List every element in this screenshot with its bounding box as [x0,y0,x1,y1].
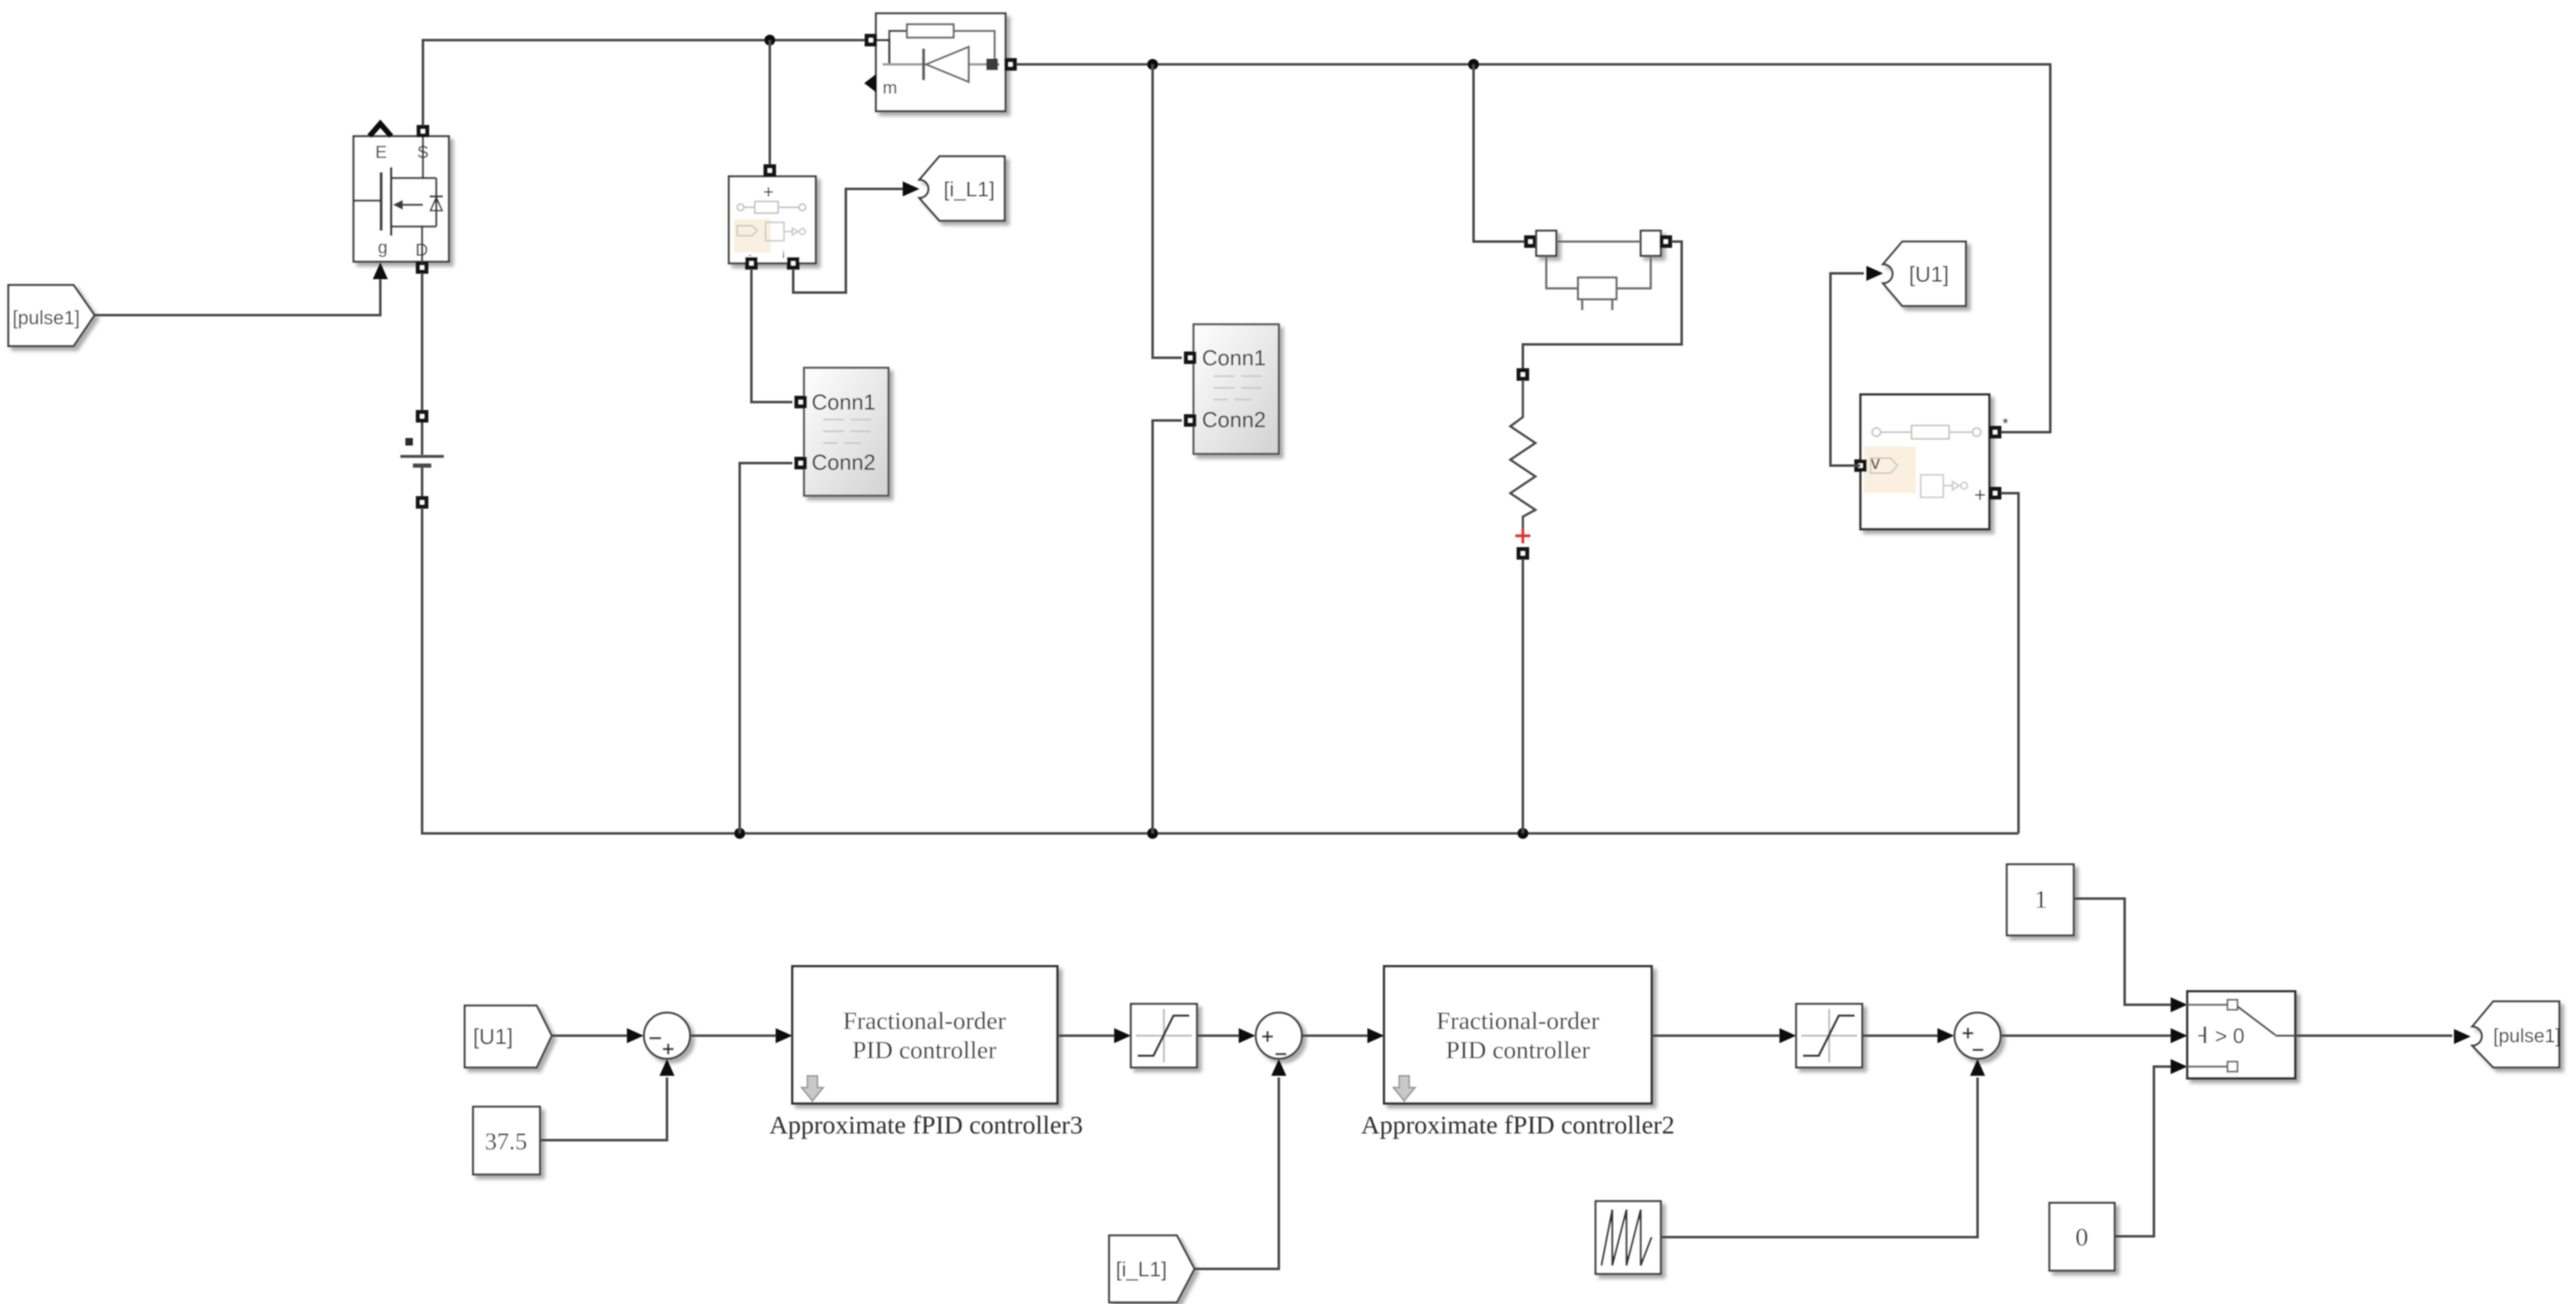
wire Conn2 #2 to rail [1153,420,1182,833]
svg-text:[pulse1]: [pulse1] [2493,1025,2561,1047]
subsystem Approximate fPID controller2 [1384,966,1652,1103]
arrowhead into sum3 [1937,1028,1954,1043]
svg-text:v: v [1871,451,1881,473]
wire const1 to switch [2074,899,2171,1005]
wire [U1] to sum1 [552,1035,627,1037]
wire S port to top bus [423,40,865,125]
wire bus down to RL branch [1474,64,1525,242]
arrowhead into saturation2 [1779,1028,1796,1043]
subsystem block Conn1/Conn2 #2 [1194,324,1279,454]
from tag [i_L1] [1109,1235,1194,1302]
svg-text:1: 1 [2034,884,2048,914]
wire RL element to load resistor [1523,242,1682,369]
wire resistor to rail [1522,559,1525,833]
junction node top-left bus [765,35,776,46]
repeating sequence sawtooth block [1596,1201,1661,1274]
arrowhead into saturation1 [1114,1028,1131,1043]
svg-text:i: i [782,248,785,261]
svg-text:[i_L1]: [i_L1] [1116,1258,1167,1281]
sum block 1 [644,1013,690,1059]
wire fPID3 to saturation1 [1057,1035,1114,1037]
wire 37.5 to sum1 [540,1077,667,1140]
svg-text:Conn1: Conn1 [812,390,876,415]
arrowhead const1 into switch [2171,997,2187,1012]
arrowhead into sum1 [627,1028,644,1043]
subsystem block Conn1/Conn2 #1 [804,368,888,496]
wire top bus to L1 branch block [769,40,771,165]
goto tag [U1] [1883,242,1966,306]
wire sum1 to fPID3 [690,1035,776,1037]
svg-text:Conn1: Conn1 [1202,345,1266,370]
junction rail at PV Conn2 [735,828,746,839]
goto tag [pulse1] [2472,1001,2559,1067]
arrowhead const0 into switch [2171,1059,2187,1074]
junction rail at Conn2 branch 2 [1148,828,1158,839]
wire i output to goto [i_L1] [793,189,903,293]
MOSFET block Q1 [354,136,449,262]
inductor current measurement block L1 [729,176,816,263]
wire bus to Conn1 #2 [1153,64,1182,358]
svg-text:PID controller: PID controller [853,1037,996,1064]
wire D port to battery [421,273,424,410]
wire fPID2 to saturation2 [1652,1035,1779,1037]
arrowhead into goto [pulse1] [2454,1029,2471,1044]
arrowhead sawtooth into sum3 [1970,1059,1985,1076]
junction bus at Conn branch [1148,59,1158,70]
goto tag [i_L1] [919,156,1005,221]
constant block 1 [2007,864,2074,935]
voltage measurement block V1 [1861,395,1989,529]
svg-text:> 0: > 0 [2215,1025,2244,1048]
arrowhead sum3 into switch [2171,1028,2187,1043]
svg-text:m: m [883,79,898,98]
svg-text:Approximate fPID controller3: Approximate fPID controller3 [769,1110,1082,1139]
wire [pulse1] to gate g [94,279,380,315]
svg-text:E: E [375,143,387,162]
junction bus at RL branch [1469,59,1479,70]
wire sawtooth to sum3 [1661,1077,1978,1237]
svg-text:Conn2: Conn2 [812,450,876,475]
svg-text:*: * [2003,415,2008,431]
saturation block 1 [1131,1004,1197,1067]
wire diode output bus [1016,64,2050,432]
from tag [pulse1] [8,285,94,346]
sum block 3 [1955,1013,2001,1059]
arrowhead i_L1 into sum2 [1271,1059,1286,1076]
svg-text:+: + [1974,484,1986,507]
wire switch to goto [pulse1] [2295,1035,2452,1037]
arrowhead into gate [373,262,388,279]
constant block 37.5 [473,1107,540,1174]
wire [i_L1] to sum2 [1194,1077,1279,1269]
wire sum3 to switch [2000,1035,2171,1037]
wire V1 plus port to rail [2001,493,2019,833]
arrowhead into goto [U1] [1866,266,1883,281]
wire rail to Conn2 #1 [740,463,792,833]
battery DC source E1 [421,422,424,455]
arrowhead into fPID2 [1367,1028,1384,1043]
wire sum2 to fPID2 [1302,1035,1367,1037]
constant block 0 [2049,1203,2115,1271]
wire saturation2 to sum3 [1862,1035,1937,1037]
svg-text:37.5: 37.5 [485,1128,527,1155]
arrowhead into sum2 [1239,1028,1255,1043]
svg-text:[pulse1]: [pulse1] [13,307,80,329]
wire L1 block to Conn1 of PV block [751,269,792,402]
series RL element block [1525,236,1537,248]
svg-text:0: 0 [2075,1222,2089,1251]
diode block D1 [876,13,1005,111]
arrowhead into fPID3 [776,1028,792,1043]
load resistor R1 [1517,369,1530,381]
saturation block 2 [1796,1004,1862,1067]
from tag [U1] [465,1006,552,1067]
subsystem Approximate fPID controller3 [792,966,1057,1103]
svg-text:PID controller: PID controller [1446,1037,1590,1064]
svg-text:[i_L1]: [i_L1] [944,178,995,201]
sum block 2 [1256,1013,1302,1059]
wire battery to bottom rail [422,508,2019,833]
wire const0 to switch [2115,1067,2171,1236]
svg-text:Fractional-order: Fractional-order [843,1007,1006,1035]
arrowhead 37.5 into sum1 [659,1059,675,1076]
wire V1 v-output to goto [U1] [1830,273,1864,466]
arrowhead into goto [i_L1] [903,181,919,196]
svg-text:[U1]: [U1] [473,1024,513,1049]
junction rail at load resistor [1518,828,1529,839]
svg-text:[U1]: [U1] [1909,262,1949,287]
svg-text:-: - [748,248,751,261]
switch block [2187,991,2295,1078]
svg-text:g: g [378,238,388,257]
svg-text:+: + [763,181,774,202]
svg-text:Conn2: Conn2 [1202,407,1266,432]
svg-text:Fractional-order: Fractional-order [1437,1007,1600,1035]
svg-text:Approximate fPID controller2: Approximate fPID controller2 [1361,1110,1674,1139]
wire saturation1 to sum2 [1197,1035,1239,1037]
